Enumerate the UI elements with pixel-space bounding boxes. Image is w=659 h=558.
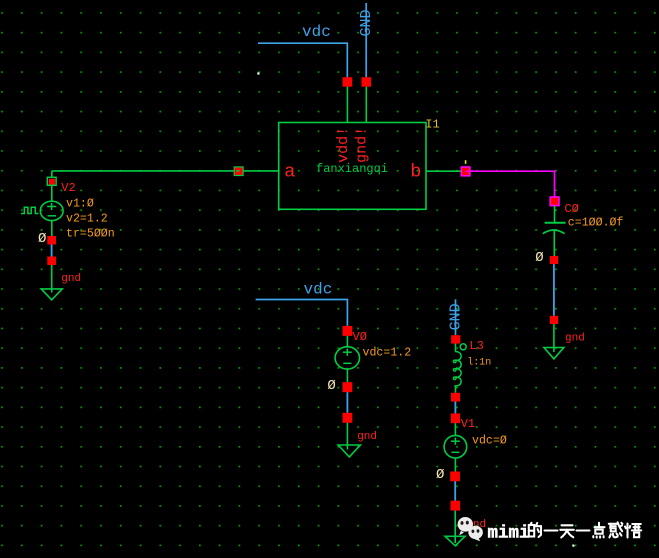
glyph: 天 — [560, 525, 574, 537]
wire: circle to net0 square — [454, 458, 456, 471]
svg-text:I1: I1 — [425, 118, 439, 132]
svg-text:Ø: Ø — [38, 231, 46, 247]
svg-text:vdc=1.2: vdc=1.2 — [363, 347, 412, 360]
major grid dot (white) — [572, 545, 574, 547]
label anchor tick (yellow) — [465, 160, 467, 164]
node: solder square V0 top — [343, 326, 353, 336]
top plate — [545, 222, 566, 224]
wire: vdc rail (middle) — [256, 300, 348, 326]
svg-text:fanxiangqi: fanxiangqi — [316, 162, 388, 176]
minus sign — [343, 362, 351, 364]
wire: bottom plate down — [553, 231, 555, 257]
glyph: 感 — [609, 522, 623, 537]
ground triangle (C0) — [544, 348, 564, 359]
glyph: 点 — [593, 523, 604, 538]
svg-text:a: a — [284, 162, 295, 183]
svg-text:VØ: VØ — [353, 330, 367, 344]
svg-text:gnd: gnd — [61, 273, 81, 285]
wire: net 0 (blue) — [346, 392, 348, 413]
minus sign — [48, 215, 57, 217]
node: square gnd top — [47, 257, 56, 266]
glyph: 一 — [577, 529, 590, 531]
wire: circle to net0 square — [346, 369, 348, 382]
node: square gnd top (V0) — [343, 413, 353, 423]
major grid dot (white) — [257, 72, 259, 74]
svg-text:V2: V2 — [61, 181, 75, 195]
wire: gnd! stub into I1 — [365, 87, 367, 123]
bottom plate (arc) — [543, 230, 565, 234]
svg-text:gnd!: gnd! — [354, 127, 371, 163]
ground symbol GND (L3) — [447, 299, 464, 335]
wire: square to circle — [454, 423, 456, 435]
minus sign — [451, 451, 459, 453]
svg-text:gnd: gnd — [357, 431, 377, 443]
plus sign — [343, 351, 352, 353]
wire: V2 top stub — [51, 171, 53, 178]
svg-text:Ø: Ø — [327, 378, 335, 394]
svg-text:GND: GND — [447, 303, 464, 330]
source V1 (vdc) — [444, 417, 507, 472]
ground triangle (V2) — [41, 289, 62, 300]
ground triangle (V0) — [338, 445, 360, 457]
source V2 (vpulse) — [21, 171, 115, 241]
wire: vdd! stub into I1 — [346, 87, 348, 123]
wire: net 0 (blue, V1) — [454, 481, 456, 500]
node: square GND/L3 — [451, 335, 460, 343]
node: square V1 top — [451, 413, 460, 423]
V1 circle — [444, 435, 467, 458]
svg-text:vdc: vdc — [304, 281, 333, 299]
wire: square to coil — [455, 344, 457, 352]
wire: net 0 (blue) — [553, 264, 555, 316]
svg-text:v1:Ø: v1:Ø — [66, 198, 94, 211]
svg-text:gnd: gnd — [565, 332, 585, 344]
plus sign — [47, 206, 56, 208]
svg-text:tr=5ØØn: tr=5ØØn — [66, 228, 115, 241]
wire: output net (magenta) — [470, 171, 555, 197]
svg-text:GND: GND — [358, 9, 375, 36]
node: junction square on a-wire — [234, 167, 243, 176]
node: pin square at b (magenta) — [461, 167, 470, 176]
V0 circle — [335, 347, 359, 369]
wire: to ground (C0) — [553, 324, 555, 352]
inductor L3 — [453, 339, 491, 393]
wire: pin b to output node — [426, 170, 461, 172]
capacitor C0 — [543, 202, 624, 256]
svg-text:L3: L3 — [469, 339, 483, 353]
wire: L3 to V1 (blue) — [454, 402, 456, 414]
instance I1 body (fanxiangqi box) — [279, 123, 426, 210]
wire: coil to square — [455, 386, 457, 393]
node: square gnd top (C0) — [550, 316, 558, 324]
watermark: CJK glyphs (drawn) — [529, 522, 641, 537]
node: solder square vdc/vdd! (top) — [343, 77, 353, 87]
wire: to ground — [51, 265, 53, 293]
node: square gnd top (V1) — [451, 501, 461, 511]
wire: vdc rail (top) — [258, 43, 347, 77]
ground symbol GND (top) — [358, 3, 375, 77]
node: solder square GND/gnd! (top) — [362, 77, 372, 87]
wire: pin to circle — [51, 185, 53, 201]
svg-text:V1: V1 — [461, 417, 475, 431]
node: square C0 bottom — [550, 256, 558, 264]
wire: circle to net0 square — [51, 221, 53, 237]
source V0 (vdc) — [335, 330, 411, 382]
svg-text:v2=1.2: v2=1.2 — [66, 213, 108, 226]
coil — [453, 352, 461, 386]
V2 source circle — [40, 201, 63, 220]
glyph: 一 — [545, 529, 558, 531]
watermark: wechat bubbles — [458, 517, 483, 541]
svg-text:mimi: mimi — [488, 524, 530, 544]
pulse waveform glyph — [21, 207, 39, 213]
wire: pin to top plate — [554, 206, 556, 223]
svg-text:Ø: Ø — [535, 250, 543, 266]
glyph: 悟 — [625, 524, 641, 538]
node: square L3 bottom — [451, 393, 460, 402]
node: square V1 minus — [450, 472, 460, 482]
svg-text:c=1ØØ.Øf: c=1ØØ.Øf — [568, 217, 624, 230]
svg-text:b: b — [410, 162, 421, 183]
pin square V2 plus terminal — [49, 179, 55, 185]
glyph: 的 — [529, 523, 541, 537]
svg-text:Ø: Ø — [436, 467, 444, 483]
svg-text:vdc=Ø: vdc=Ø — [472, 435, 507, 448]
svg-text:l:1n: l:1n — [467, 356, 491, 368]
wire: square to circle — [346, 336, 348, 347]
polarity circle marker — [460, 344, 466, 350]
node: pin square at C0 top (magenta) — [550, 197, 559, 206]
node: square V0 minus — [343, 382, 353, 392]
ground triangle (V1) — [445, 536, 465, 546]
plus sign — [451, 440, 460, 442]
svg-text:vdd!: vdd! — [335, 127, 352, 163]
wire: to ground (V1) — [454, 511, 456, 543]
wire: net from V2 to pin a — [52, 170, 279, 172]
node: square V2 minus — [47, 236, 56, 245]
wire: net 0 (blue) — [51, 245, 53, 257]
svg-text:vdc: vdc — [302, 23, 331, 41]
svg-text:CØ: CØ — [564, 202, 578, 216]
wire: to ground (V0) — [346, 423, 348, 450]
